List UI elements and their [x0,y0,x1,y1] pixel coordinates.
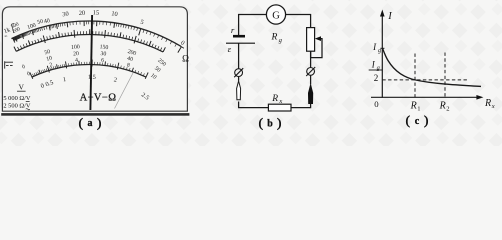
svg-text:(: ( [79,115,83,130]
svg-text:r: r [231,25,235,35]
galvanometer G [266,5,285,24]
thick base line under meter [1,113,189,116]
DC symbol left edge [5,61,13,68]
svg-text:a: a [88,118,93,129]
svg-text:x: x [491,103,495,110]
svg-text:V: V [18,83,24,92]
svg-text:(: ( [259,115,263,130]
meter scale 1 major ticks [13,21,182,53]
wire top right segment [286,15,311,28]
left terminal circle with slash [235,69,243,77]
svg-text:0: 0 [374,99,379,109]
svg-text:R: R [484,98,491,109]
scale 1 end tangent stroke [180,46,184,48]
svg-text:c: c [415,116,420,127]
svg-text:): ) [97,115,101,130]
meter face box [2,7,187,111]
caption (c) [406,113,429,128]
rheostat wiper arrowhead [315,36,321,41]
meter scale 3 arc line (AC 2.5V) [32,64,146,77]
vertical dashed line at R2 [444,53,446,98]
svg-text:b: b [267,119,273,130]
svg-text:30: 30 [100,51,106,58]
svg-text:15: 15 [93,9,100,16]
wire left probe to resistor [239,77,269,108]
svg-text:1: 1 [417,106,420,113]
svg-text:ε: ε [228,44,232,54]
battery cell: short thick negative plate [233,35,245,38]
svg-text:20: 20 [79,10,86,17]
right terminal circle with slash [307,68,315,76]
rheostat wiper wire [311,39,322,58]
wire bottom right of resistor [291,104,311,108]
svg-text:G: G [272,10,280,21]
caption (b) [259,115,282,130]
tick at Ig level [380,47,384,49]
svg-text:2: 2 [446,106,449,113]
meter scale 2 arc line (DC V/A) [16,34,163,51]
meter scale 2 major ticks [14,29,165,52]
I vs R curve [383,49,481,87]
svg-text:∞: ∞ [4,34,7,39]
y axis [381,15,383,98]
wire right rheostat to switch [310,51,312,84]
needle [90,15,92,110]
svg-text:I: I [387,11,392,22]
meter scale 3 minor ticks [33,62,145,77]
meter scale 2 minor ticks [15,31,165,52]
svg-text:R: R [439,101,446,112]
vertical dashed line at R1 [414,54,416,98]
left probe (outlined) [237,81,241,100]
resistor Rx box [268,104,291,111]
horizontal dashed line at Ig/2 [382,79,468,81]
right probe (solid black) [308,84,312,103]
wire left below battery to switch [238,43,240,68]
svg-text:): ) [277,115,281,130]
svg-text:2: 2 [374,73,379,83]
svg-text:100: 100 [71,44,80,51]
svg-text:30: 30 [62,11,69,19]
svg-text:R: R [271,32,278,42]
svg-text:): ) [424,113,428,128]
svg-text:A−V−Ω: A−V−Ω [80,93,117,104]
meter scale 3 major ticks [30,60,148,79]
svg-text:Ω: Ω [182,54,189,64]
svg-text:20: 20 [73,51,79,57]
caption (a) [79,115,102,130]
meter scale 1 minor ticks [13,21,177,47]
svg-text:R: R [410,101,417,112]
svg-text:x: x [278,98,282,105]
svg-text:(: ( [406,113,410,128]
faint diagonal mirror line [115,73,134,109]
meter scale 1 arc line (ohms) [11,21,180,46]
bracket near 500/200 [12,23,14,33]
battery cell: long thin positive plate [226,42,255,44]
svg-text:R: R [271,94,278,104]
wire top left segment [239,15,267,36]
svg-text:10: 10 [111,10,118,18]
rheostat R0 box [307,28,315,52]
x axis [371,96,478,98]
svg-text:5 000 Ω/V: 5 000 Ω/V [3,95,31,102]
